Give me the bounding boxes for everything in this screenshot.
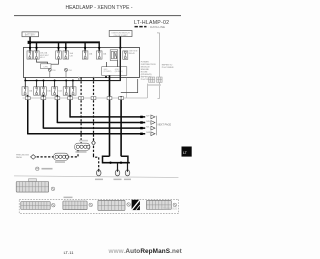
connector faceplate D (bottom row) [146, 200, 171, 209]
svg-text:www.AutoRepManS.net: www.AutoRepManS.net [108, 248, 183, 255]
pointer line to connector grids [126, 78, 147, 98]
battery box B1 [22, 32, 39, 37]
wire ignition drop [120, 37, 122, 48]
fuse row2 F12 [70, 87, 76, 95]
stub to terminal T3 [127, 163, 129, 170]
fuse value text group 2 [70, 52, 74, 57]
wire drop W4 (fuse F12 down) [69, 95, 71, 117]
junction square on bus [28, 41, 31, 44]
bus drop to fuse F2 [36, 43, 37, 53]
joint connector cluster J1 [75, 143, 91, 150]
svg-text:HI LO: HI LO [40, 57, 45, 59]
svg-text:HEADLAMP - XENON TYPE -: HEADLAMP - XENON TYPE - [65, 5, 132, 11]
diamond preceding page [31, 155, 36, 160]
stub to terminal T2 [117, 163, 119, 170]
screw symbol S2 [52, 203, 56, 207]
fuse row2 F7 [22, 87, 28, 95]
small connector symbol with label [36, 167, 39, 170]
svg-text:NEXT PAGE: NEXT PAGE [158, 123, 172, 126]
feed line junction dots [24, 80, 26, 82]
module name text POWER DISTRIBUTION MODULE [141, 62, 156, 82]
svg-text:CND: CND [68, 70, 73, 72]
fuse row2 F8 [34, 87, 40, 95]
label PRECEDING PAGE [16, 154, 29, 159]
connector face grid E1 [149, 77, 155, 82]
bracket line next page [155, 116, 157, 136]
note text REFER TO PG-POWER [162, 64, 175, 69]
headlamp output wire W6 [120, 96, 122, 156]
cpu box (IPDM) [41, 64, 52, 69]
svg-text:ON OR START: ON OR START [114, 34, 129, 37]
connector faceplate B (bottom row) [63, 201, 87, 210]
open arrow page connector 3 [151, 126, 155, 130]
dashed data wire D1 [80, 78, 82, 144]
wire relay L-link [121, 79, 138, 93]
bus drop to fuse F5 [84, 43, 85, 53]
bus drop to fuse F3 [58, 43, 59, 53]
connector faceplate C (bottom row) [98, 200, 125, 210]
svg-text:LT-11: LT-11 [64, 251, 74, 255]
svg-text:CPU: CPU [43, 66, 48, 68]
fuse F2 (IPDM) [34, 51, 40, 59]
open arrow page connector 1 [151, 115, 155, 119]
fuse F5 (IPDM) [82, 51, 88, 59]
label IGNITION RELAY [129, 51, 138, 55]
bend wire W1 to next page line 4 [28, 133, 146, 135]
bottom junction bar [102, 162, 130, 164]
jog wire W5 left elbow [103, 156, 110, 162]
wire ipdm to feed line left [24, 78, 26, 81]
cnd symbol 1 [48, 68, 51, 77]
section tab LT [182, 147, 192, 157]
gnd box (IPDM) [102, 67, 127, 76]
jog wire W6 right elbow [121, 156, 128, 162]
svg-text:RELAY: RELAY [129, 52, 136, 55]
wire drop W1 (fuse F7 down) [27, 95, 29, 134]
wire battery drop [29, 37, 31, 52]
faint rule mid bottom [14, 176, 178, 178]
fuse value text group 1 [40, 52, 50, 59]
wire relay to gnd box stub 1 [106, 62, 108, 67]
fuse row feed stubs [25, 81, 73, 87]
tick marks on next page lines [140, 116, 143, 135]
dashed wire D2 jog to terminal [94, 155, 99, 170]
bend wire W3 to next page line 2 [57, 122, 145, 124]
svg-text:R/W: R/W [146, 132, 150, 134]
wire color code marks [78, 77, 94, 80]
junction dot gnd [105, 76, 107, 78]
wire code text at line ends [146, 115, 150, 134]
svg-text:PG-POWER.: PG-POWER. [162, 67, 175, 69]
dashed data wire D2 [93, 78, 95, 156]
wire ignition relay down feed [120, 47, 121, 80]
wire fuse3 to cpu [48, 59, 59, 64]
bend wire W4 to next page line 1 [70, 116, 145, 118]
svg-text:TKWM0662E: TKWM0662E [163, 207, 178, 210]
wire drop W3 (fuse F10 down) [57, 95, 59, 123]
fuse F1 (IPDM) [27, 51, 33, 59]
connector faceplate A (bottom row) [21, 202, 50, 210]
wire drop W2 (fuse F9 down) [43, 95, 45, 128]
connector face grid E2 [157, 77, 163, 82]
terminal oval T3 [125, 169, 130, 176]
open arrow page connector 4 [151, 132, 155, 136]
screw symbol S1 [51, 187, 55, 191]
bus drop to fuse F6 [99, 41, 100, 52]
svg-text:PRECEDING: PRECEDING [16, 154, 29, 156]
fuse row2 F10 [52, 87, 58, 95]
node dots on box top edge [29, 47, 31, 49]
fuse row2 F9 [40, 87, 46, 95]
fuse row2 F11 [63, 87, 69, 95]
screw symbol S5 [173, 203, 177, 207]
fuse row feed line [25, 80, 121, 81]
label above cluster J1 [79, 140, 88, 142]
diamond junction on D2 [92, 141, 96, 146]
junction dot bottom 2 [120, 162, 122, 164]
fuse F4 (IPDM) [63, 51, 69, 59]
harness boundary line [23, 97, 148, 99]
faint scan line vertical [157, 33, 160, 99]
headlamp output wire W5 [109, 75, 111, 156]
black marker square [132, 200, 140, 210]
fuse F3 (IPDM) [56, 51, 62, 59]
screw symbol S4 [127, 203, 131, 207]
connector faceplate M1 (row 1) [16, 179, 49, 192]
bus bar (battery feed) [28, 41, 100, 43]
relay contact box K1b [123, 51, 128, 59]
junction dot bottom 1 [109, 162, 111, 164]
wire relay to gnd box stub 2 [117, 61, 119, 67]
svg-text:(SIGNAL): (SIGNAL) [115, 70, 123, 73]
dashed wire cluster J1 to preceding page [36, 150, 78, 157]
tiny label smudges [17, 151, 131, 198]
label under connector grids [148, 84, 161, 85]
svg-text:(POWER): (POWER) [103, 71, 111, 73]
dashed box around bottom connectors [19, 199, 179, 213]
svg-text:PAGE: PAGE [16, 156, 22, 159]
cnd symbol 2 [65, 68, 68, 77]
fuse F6 (IPDM) [96, 51, 102, 59]
rule under title [14, 15, 181, 16]
screw symbol S3 [89, 203, 93, 207]
joint connector cluster J2 [54, 153, 69, 160]
legend data line dashes [135, 26, 138, 28]
bend wire W2 to next page line 3 [43, 127, 145, 129]
svg-text:CND: CND [52, 70, 57, 72]
inline connector symbols on harness line [25, 97, 123, 100]
ignition switch box B2 [109, 31, 132, 37]
bus drop to fuse F4 [65, 43, 66, 53]
terminal oval T1 [96, 169, 101, 176]
open arrow page connector 2 [151, 121, 155, 125]
wire fuse2 to cpu [37, 59, 48, 64]
svg-text:BATTERY: BATTERY [25, 34, 36, 37]
IPDM E/R big box [24, 47, 140, 77]
svg-text:: DATA LINE: : DATA LINE [149, 25, 166, 29]
terminal oval T2 [115, 169, 120, 176]
relay K1 ignition relay [110, 50, 118, 61]
